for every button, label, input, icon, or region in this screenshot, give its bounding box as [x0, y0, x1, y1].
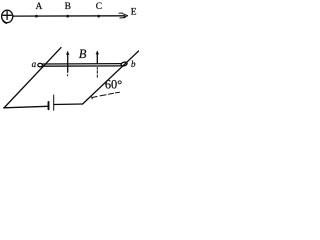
svg-text:a: a: [32, 59, 37, 69]
dashed horizontal reference line: [92, 92, 120, 97]
svg-text:b: b: [131, 59, 136, 69]
bottom wire right: [54, 103, 83, 106]
B arrow left head: [66, 51, 69, 55]
bottom wire left: [4, 106, 48, 108]
B arrow right dashed continuation: [96, 68, 98, 78]
svg-text:B: B: [65, 2, 71, 12]
svg-text:E: E: [131, 7, 137, 17]
rod left end cap: [38, 63, 43, 66]
left rail: [4, 48, 61, 108]
right rail: [83, 51, 139, 104]
B arrow left shaft: [67, 53, 69, 72]
arrowhead of E axis: [119, 13, 128, 18]
battery long plate: [53, 95, 55, 110]
node A dot: [35, 15, 38, 18]
B arrow right shaft: [96, 53, 98, 64]
node B dot: [66, 15, 69, 18]
angle arc: [91, 96, 93, 99]
svg-text:60°: 60°: [105, 77, 122, 91]
node C dot: [97, 15, 100, 18]
svg-text:C: C: [96, 2, 102, 12]
rod right end cap: [121, 61, 128, 66]
field line (axis): [13, 15, 125, 17]
svg-text:B: B: [79, 47, 87, 61]
svg-text:A: A: [36, 2, 43, 12]
B arrow right head: [96, 50, 99, 54]
rod ab upper line: [42, 63, 121, 65]
charge symbol circle-plus: [2, 10, 13, 23]
B arrow left dash below: [67, 75, 69, 76]
rod ab lower line: [42, 65, 121, 67]
battery short plate: [48, 102, 50, 109]
